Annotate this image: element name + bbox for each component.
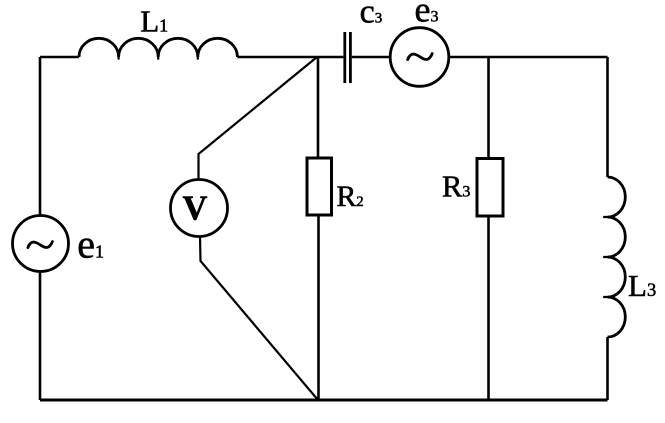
svg-text:e1: e1 xyxy=(77,222,104,267)
svg-text:e3: e3 xyxy=(415,0,439,30)
svg-text:L1: L1 xyxy=(140,4,168,39)
svg-text:L3: L3 xyxy=(628,268,656,303)
svg-text:V: V xyxy=(183,189,208,227)
svg-text:c3: c3 xyxy=(360,0,383,31)
svg-text:R2: R2 xyxy=(336,180,363,213)
svg-text:R3: R3 xyxy=(442,170,470,204)
